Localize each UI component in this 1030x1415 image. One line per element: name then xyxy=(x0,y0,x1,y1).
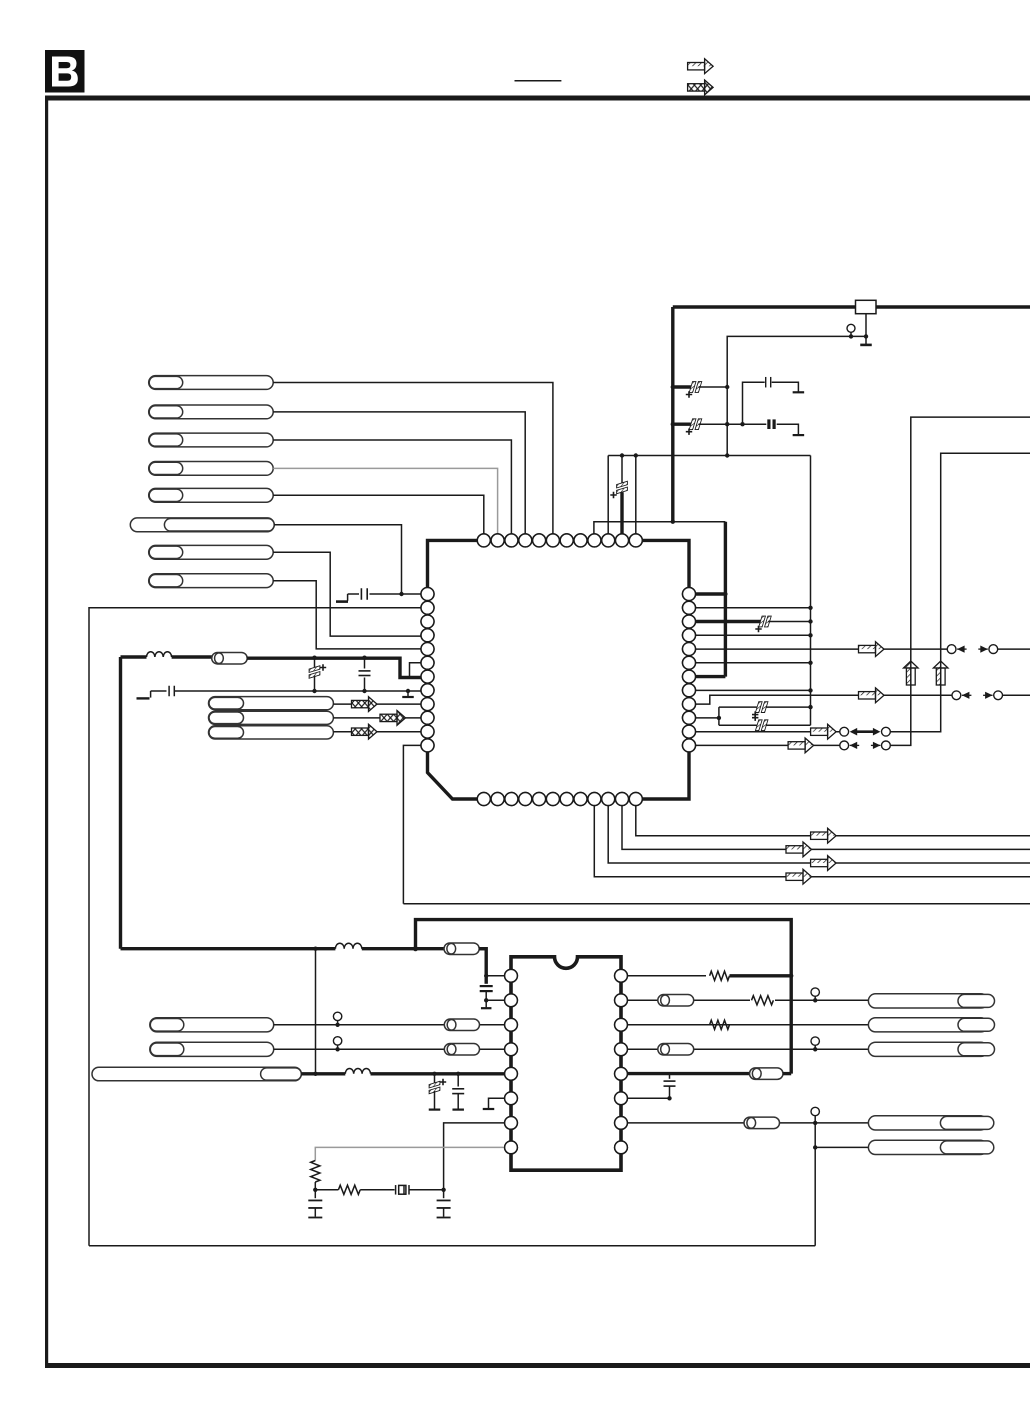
legend line xyxy=(515,80,562,82)
thick rail lower xyxy=(121,947,487,950)
fuse F1 on rail xyxy=(856,300,877,313)
wire U2 right pin2 xyxy=(621,999,868,1001)
node A junction xyxy=(399,592,403,596)
pin circles overlay xyxy=(421,534,696,1154)
U2 right pins 9-16 xyxy=(615,969,628,1153)
ferrite bead FB5 xyxy=(658,995,694,1007)
wire U2 right pin7 xyxy=(621,1122,868,1124)
wire node A to U1 left pin1 xyxy=(402,593,428,595)
wire U1 right pin12 row D xyxy=(689,744,844,746)
wire J8 to U1 left pin5 xyxy=(273,581,427,649)
U2 left pins 1-8 xyxy=(505,969,518,1153)
ground G6 at U2 pin6 xyxy=(489,1098,512,1108)
connector J1 xyxy=(149,376,274,390)
connector J17 xyxy=(868,1042,988,1056)
wire U2 right pin6 xyxy=(621,1097,670,1099)
connector J2 xyxy=(149,405,274,419)
wire U1 left pin6 stub xyxy=(410,663,428,678)
connector J11 xyxy=(209,726,334,739)
U1 bottom pins 13-24 xyxy=(477,793,642,806)
border top xyxy=(45,96,1030,101)
wire power to U1 top pins 9-12 xyxy=(608,456,810,541)
connector J3 xyxy=(149,433,274,447)
connector J18 xyxy=(868,1116,987,1130)
IC U1 body xyxy=(428,540,690,799)
wire J10 arrow crosshatched xyxy=(333,717,427,719)
inductor L2 xyxy=(335,943,361,948)
wire U2 right pin1 resistor R3 xyxy=(621,975,706,977)
connector J19 xyxy=(868,1140,987,1154)
wire U2 right pin3 resistor R5 xyxy=(621,1024,868,1026)
wire J4 to U1 top pin2 (gray) xyxy=(273,468,497,540)
wire J1 to U1 top pin6 xyxy=(273,383,553,541)
ferrite bead FB6 xyxy=(658,1044,694,1056)
wire pin L12 net to right xyxy=(403,903,1030,905)
wire J7 to U1 left pin4 xyxy=(273,552,427,636)
capacitor C15 to ground xyxy=(443,1190,445,1198)
ground G2 xyxy=(860,344,872,347)
wire U1 right pin4 to bus xyxy=(689,634,811,636)
arrow A xyxy=(859,642,885,657)
capacitor C7 (electrolytic) on right pin3 xyxy=(689,620,762,623)
up arrow D xyxy=(904,661,919,685)
ferrite bead FB3 xyxy=(444,1019,479,1031)
ferrite bead FB2 xyxy=(444,943,479,955)
wire U1 right pin8 to bus xyxy=(689,689,811,691)
capacitor C13 to ground xyxy=(456,1072,460,1076)
thick power drop right side xyxy=(724,522,727,677)
ferrite bead FB4 xyxy=(444,1044,479,1056)
wire J14 to U2 pin5 thick xyxy=(301,1072,511,1075)
vertical branch power xyxy=(315,949,317,1074)
wire U1 left pin2 long net xyxy=(89,608,428,1246)
wire U1 bottom pin12 xyxy=(636,799,1030,836)
wire TP1 net xyxy=(727,336,866,455)
connector J7 xyxy=(149,545,274,559)
crystal X1 xyxy=(360,1189,394,1191)
wire J5 to U1 top pin1 xyxy=(273,495,484,540)
wire J9 arrow crosshatched xyxy=(333,703,427,705)
resistor R2 xyxy=(315,1189,338,1191)
border bottom xyxy=(45,1363,1030,1368)
arrow D xyxy=(788,738,814,753)
wire U2 pin8 gray xyxy=(315,1147,511,1160)
capacitor C3 (electrolytic) xyxy=(671,422,675,426)
capacitor C14 to ground xyxy=(314,1190,316,1198)
capacitor C12 (electrolytic) to ground xyxy=(432,1072,436,1076)
resistor R1 (vertical) xyxy=(311,1161,320,1183)
inductor L3 xyxy=(345,1069,370,1074)
wire row C to top right xyxy=(890,453,1030,731)
wire U1 right pin6 to bus xyxy=(689,662,811,664)
arrow C xyxy=(811,724,837,739)
wire to U2 pin2 xyxy=(486,999,511,1001)
power rail top xyxy=(673,305,1030,308)
wire J12 to U2 pin3 xyxy=(274,1024,511,1026)
wire J6 to node A xyxy=(274,525,401,594)
sheet label B xyxy=(45,50,85,93)
arrow B xyxy=(859,688,885,703)
connector J15 xyxy=(868,994,988,1008)
connector pair A xyxy=(947,645,956,654)
test point TP2 xyxy=(333,1012,341,1020)
wire row D to top right xyxy=(890,417,1030,745)
test point TP6 tall xyxy=(811,1107,819,1115)
connector J14 (wide) xyxy=(92,1067,301,1081)
ferrite bead FB7 xyxy=(750,1068,784,1080)
wire to U2 pin1 xyxy=(479,949,486,976)
connector pair D xyxy=(840,741,849,750)
legend arrow hatched xyxy=(688,59,714,74)
inductor L1 xyxy=(121,655,147,658)
wire U1 bottom pin9 xyxy=(594,799,1030,877)
wire connector J19 net xyxy=(813,1145,817,1149)
test point TP1 xyxy=(847,324,855,332)
connector J5 xyxy=(149,488,274,502)
test point TP5 xyxy=(811,1037,819,1045)
wire U1 bottom pin11 xyxy=(622,799,1030,849)
ferrite bead FB8 xyxy=(744,1117,780,1129)
connector J13 xyxy=(150,1042,274,1056)
ferrite bead FB1 xyxy=(172,655,213,658)
wire J2 to U1 top pin4 xyxy=(273,412,525,540)
capacitor ladder on right pin10 xyxy=(689,717,719,719)
connector J16 xyxy=(868,1018,988,1032)
wire J3 to U1 top pin3 xyxy=(273,440,511,540)
connector J9 xyxy=(209,697,334,710)
connector pair B xyxy=(952,691,961,700)
wire U1 right pin5 to connector row A xyxy=(689,648,952,650)
capacitor C2 (electrolytic) xyxy=(671,385,675,389)
wire U1 bottom pin10 xyxy=(608,799,1030,863)
wire U2 right pin4 xyxy=(621,1048,868,1050)
capacitor C11 xyxy=(485,976,488,984)
wire J13 to U2 pin4 xyxy=(274,1048,511,1050)
capacitor C5 and ground xyxy=(743,423,767,425)
thick branch up to loop xyxy=(416,920,792,1074)
wire F1 to ground xyxy=(865,314,867,345)
wire U1 right pin2 to bus xyxy=(689,607,811,609)
border left xyxy=(45,96,48,1368)
wire U2 pin7 to RC xyxy=(444,1123,511,1190)
U1 left pins 1-12 xyxy=(421,588,434,752)
connector J12 xyxy=(150,1018,274,1032)
ground G3 and capacitor C10 xyxy=(150,691,152,698)
capacitor C16 xyxy=(669,1074,671,1079)
connector J4 xyxy=(149,462,274,476)
wire U1 left pin12 down xyxy=(403,745,427,903)
connector pair C xyxy=(840,727,849,736)
thick wire to U1 left pin7 xyxy=(247,658,427,677)
IC U2 body xyxy=(511,957,621,1170)
loop bottom wire xyxy=(89,1245,815,1247)
rail drop thick xyxy=(671,307,674,522)
connector J6 xyxy=(130,518,274,532)
wire U1 right pin11 row C xyxy=(689,731,844,733)
capacitor C1 xyxy=(348,593,359,595)
bus vertical right of U1 xyxy=(810,456,812,726)
wire J11 arrow crosshatched xyxy=(333,731,427,733)
connector J10 xyxy=(209,711,334,724)
up arrow C xyxy=(933,661,948,685)
test point TP4 xyxy=(811,988,819,996)
ground G5 xyxy=(485,1000,487,1007)
ground G1 xyxy=(347,594,349,601)
connector J8 xyxy=(149,574,274,588)
capacitor C8 (electrolytic) xyxy=(312,656,316,660)
thick wire U2 right pin5 xyxy=(621,1072,750,1075)
wire power rail to right pins xyxy=(594,522,726,540)
thick drop to lower section xyxy=(119,657,122,949)
U1 top pins 1-12 xyxy=(477,534,642,547)
wire U1 right pin9 to connector row B xyxy=(689,695,956,704)
wire C10 to U1 left pin8 xyxy=(175,690,428,692)
capacitor C4 and ground xyxy=(727,382,765,424)
legend arrow crosshatched xyxy=(688,80,714,95)
capacitor C9 xyxy=(362,656,366,660)
U1 right pins 1-12 xyxy=(683,588,696,752)
capacitor C6 (electrolytic) to pin T11 xyxy=(621,456,623,484)
ground G4 xyxy=(406,689,410,693)
test point TP3 xyxy=(333,1037,341,1045)
resistor R4 xyxy=(750,994,775,1006)
